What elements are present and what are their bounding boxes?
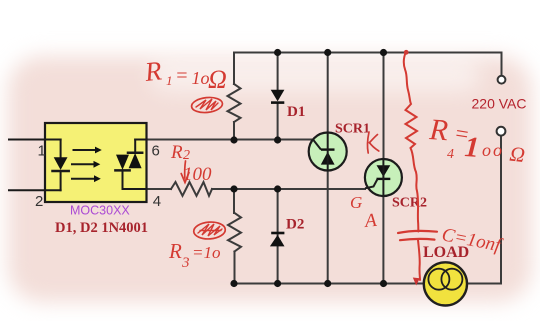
- svg-text:G: G: [350, 193, 362, 212]
- svg-text:D1: D1: [287, 104, 305, 120]
- svg-text:2: 2: [35, 193, 43, 210]
- svg-text:R: R: [142, 55, 163, 87]
- svg-text:4: 4: [447, 147, 454, 162]
- svg-text:A: A: [362, 210, 378, 232]
- svg-text:4: 4: [153, 193, 161, 210]
- svg-text:SCR2: SCR2: [392, 196, 427, 211]
- svg-text:6: 6: [152, 143, 160, 160]
- svg-text:=: =: [175, 65, 189, 87]
- svg-text:R: R: [170, 142, 183, 163]
- svg-text:220 VAC: 220 VAC: [472, 96, 527, 112]
- svg-text:1o: 1o: [192, 68, 210, 88]
- svg-text:R: R: [428, 113, 450, 147]
- svg-text:Ω: Ω: [208, 65, 227, 94]
- svg-text:1: 1: [38, 143, 46, 160]
- svg-text:2: 2: [183, 148, 190, 163]
- svg-text:1: 1: [166, 73, 173, 88]
- svg-text:D2: D2: [286, 217, 304, 233]
- svg-text:MOC30XX: MOC30XX: [70, 204, 130, 218]
- svg-text:oo: oo: [482, 140, 504, 160]
- svg-text:SCR1: SCR1: [335, 122, 370, 137]
- svg-text:3: 3: [181, 255, 190, 271]
- svg-text:Ω: Ω: [508, 142, 526, 167]
- svg-text:=1o: =1o: [192, 243, 220, 262]
- svg-text:D1, D2 1N4001: D1, D2 1N4001: [55, 220, 148, 236]
- svg-text:1: 1: [464, 131, 481, 164]
- svg-text:R: R: [168, 239, 182, 263]
